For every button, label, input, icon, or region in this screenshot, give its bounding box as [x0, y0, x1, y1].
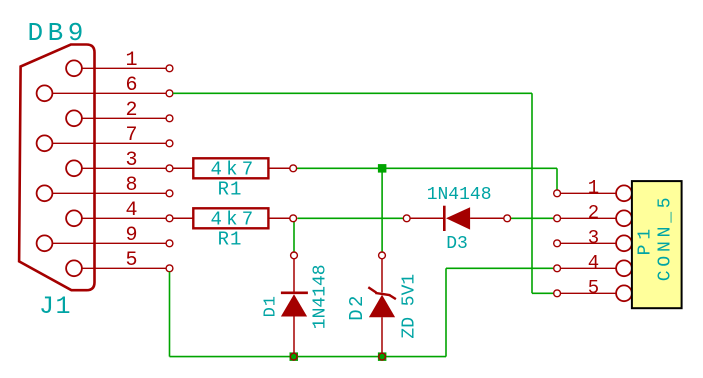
junction node — [378, 164, 387, 173]
diode D2 (zener) — [346, 252, 419, 360]
resistor R1 — [173, 158, 297, 200]
connector P1 pins — [554, 185, 632, 301]
J1 pin 7 — [37, 135, 173, 151]
svg-text:6: 6 — [125, 74, 137, 97]
svg-text:1N4148: 1N4148 — [427, 185, 492, 205]
svg-text:5: 5 — [125, 249, 137, 272]
wire pin6 to node — [173, 92, 532, 94]
wire vertical x446 — [445, 268, 447, 356]
svg-text:2: 2 — [588, 202, 599, 224]
svg-text:CONN_5: CONN_5 — [655, 194, 675, 282]
J1 pin 8 — [37, 185, 173, 201]
resistor R2 — [173, 208, 297, 250]
svg-text:P1: P1 — [636, 224, 656, 256]
svg-text:5: 5 — [588, 277, 599, 299]
svg-text:1N4148: 1N4148 — [311, 264, 331, 329]
svg-text:4k7: 4k7 — [211, 209, 258, 231]
svg-text:D2: D2 — [346, 293, 368, 320]
svg-text:1: 1 — [588, 177, 599, 199]
J1 pin 6 — [37, 85, 173, 101]
svg-text:ZD 5V1: ZD 5V1 — [399, 274, 419, 339]
junction D1 bottom — [290, 352, 299, 361]
svg-text:3: 3 — [125, 149, 137, 172]
J1 pin 9 — [37, 235, 173, 251]
wire bottom rail — [170, 356, 447, 358]
svg-text:J1: J1 — [39, 292, 72, 321]
svg-text:2: 2 — [125, 99, 137, 122]
wire down to P1 pin1 — [556, 168, 558, 190]
J1 pin numbers — [125, 49, 137, 272]
svg-text:D3: D3 — [446, 234, 468, 254]
wire P1 pin4 row — [446, 267, 554, 269]
svg-text:9: 9 — [125, 224, 137, 247]
wire vertical x532 — [531, 93, 533, 293]
J1 pin 2 — [66, 110, 173, 126]
wire to P1 pin5 — [532, 292, 554, 294]
svg-text:DB9: DB9 — [28, 18, 88, 48]
junction D2 bottom — [378, 352, 387, 361]
wire R1 output row — [297, 167, 557, 169]
svg-text:R1: R1 — [218, 179, 243, 201]
svg-text:7: 7 — [125, 124, 137, 147]
connector J1 DB9 body — [19, 45, 94, 291]
wire R2 output row — [297, 217, 403, 219]
svg-text:R1: R1 — [218, 229, 243, 251]
svg-text:4: 4 — [588, 252, 599, 274]
wire down to D1 — [293, 222, 295, 252]
svg-text:1: 1 — [125, 49, 137, 72]
svg-text:D1: D1 — [262, 295, 281, 317]
svg-text:4k7: 4k7 — [211, 159, 258, 181]
P1 pin numbers — [588, 177, 599, 299]
diode D3 — [403, 185, 510, 254]
wire pin5 down — [169, 272, 171, 357]
svg-text:3: 3 — [588, 227, 599, 249]
wire junction down to D2 — [381, 168, 383, 252]
J1 pin 1 — [66, 60, 173, 76]
svg-text:4: 4 — [125, 199, 137, 222]
J1 pin 4 — [66, 210, 173, 226]
J1 pin 5 — [66, 260, 173, 276]
J1 pin 3 — [66, 160, 173, 176]
wire D3 to P1 pin2 — [511, 217, 554, 219]
svg-text:8: 8 — [125, 174, 137, 197]
diode D1 — [262, 252, 331, 360]
connector P1 body — [632, 181, 682, 308]
